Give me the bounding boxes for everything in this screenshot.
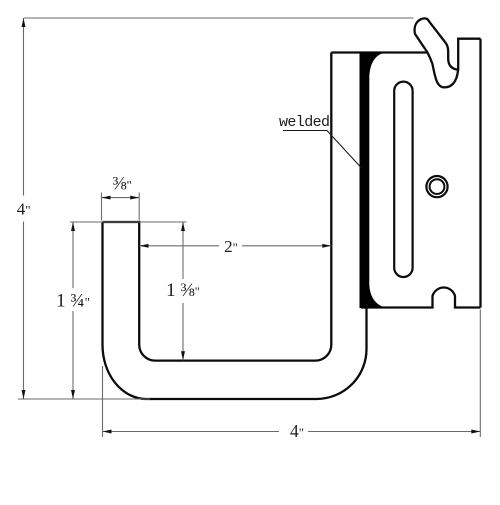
J-hook inner outline [103,53,332,361]
arrow 3/8 left [102,196,111,200]
text gap 1 3/8 [164,279,202,303]
svg-text:1 ¾": 1 ¾" [56,291,90,312]
arrow 1-3/8 top [181,222,185,231]
arrow left-4 bottom [22,390,26,399]
plate tab curl (outer edge) [428,53,459,88]
extension line: 3/8 left [101,193,103,221]
dimension line: bottom 4" horizontal [103,431,481,433]
arrow bottom-4 left [103,430,112,434]
arrow 2" right [322,244,331,248]
extension line: bottom-right (plate right edge) [479,310,481,438]
dimension line: 2" horizontal [140,245,332,247]
dimension line: 3/8 horizontal [102,197,140,199]
plate top-right notch [458,39,480,71]
extension line: 3/8 right [138,193,140,221]
J-hook outer outline [103,53,367,400]
arrow left-4 top [22,18,26,27]
svg-text:welded: welded [279,114,329,131]
dimension line: 1 3/4 vertical [72,222,74,399]
weld bead (black) [360,52,387,308]
extension line: top (tab top level) [24,17,413,19]
svg-text:⅜": ⅜" [112,174,132,195]
text gap bottom 4" [279,422,308,440]
plate hole inner circle [430,179,445,194]
plate tab (bent hook clip) inner edge [415,18,458,69]
text gap 1 3/4 [54,288,92,311]
extension line: arm top level [70,221,187,223]
extension line: hook bottom level (left) [18,398,150,400]
arrow 1-3/4 bottom [71,390,75,399]
plate slot (oblong) [394,82,412,277]
mounting plate top edge [331,51,427,53]
plate right edge [479,39,481,308]
svg-text:4": 4" [17,200,31,219]
arrow 3/8 right [130,196,139,200]
text gap 2" [219,237,242,254]
dimension line: left 4" vertical [23,18,25,399]
arrow bottom-4 right [471,430,480,434]
dimension line: 1 3/8 vertical [182,222,184,360]
arrow 1-3/8 bottom [181,351,185,360]
text gap left 4" [15,196,32,222]
leader line for welded label [283,131,361,168]
svg-text:2": 2" [224,237,238,256]
extension line: bottom-left (hook outer face) [102,366,104,437]
svg-text:1 ⅜": 1 ⅜" [166,280,200,301]
plate hole outer circle [426,176,447,197]
arrow 2" left [140,244,149,248]
plate bottom edge with notch [361,288,481,308]
arrow 1-3/4 top [71,222,75,231]
